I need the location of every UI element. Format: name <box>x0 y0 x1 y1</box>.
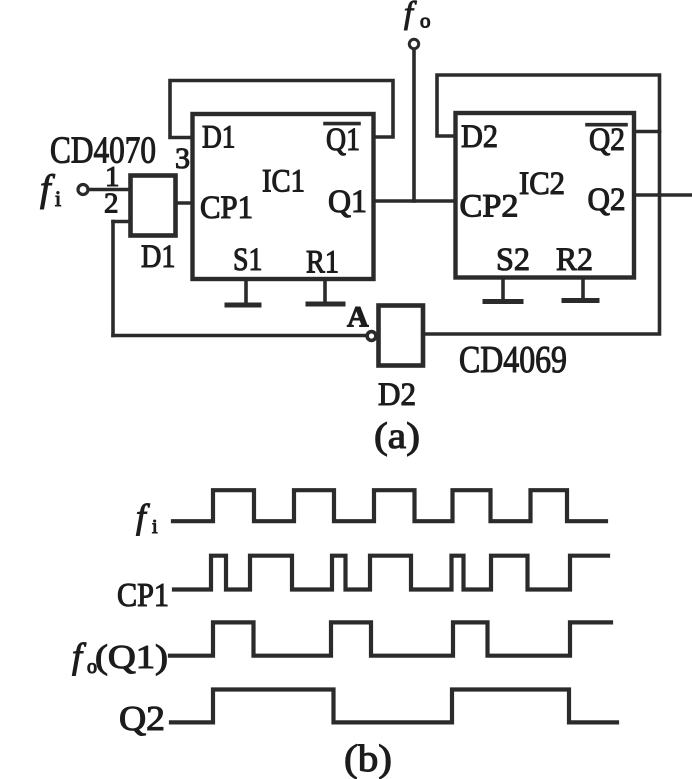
svg-text:i: i <box>55 186 61 211</box>
svg-text:Q1: Q1 <box>328 184 367 220</box>
ground R1 <box>308 279 343 304</box>
input terminal fi <box>78 185 88 195</box>
svg-text:D2: D2 <box>461 119 498 155</box>
svg-text:D1: D1 <box>202 120 236 156</box>
svg-text:A: A <box>347 301 369 334</box>
XOR gate D1 box (CD4070) <box>131 176 176 236</box>
waveform CP1 <box>174 556 608 590</box>
svg-text:CP1: CP1 <box>200 190 253 226</box>
svg-text:IC2: IC2 <box>519 166 565 202</box>
ground S1 <box>227 279 259 305</box>
svg-text:CD4070: CD4070 <box>50 130 156 172</box>
wire Q1 output to CP2 <box>376 199 456 203</box>
svg-text:Q2: Q2 <box>588 182 626 218</box>
svg-text:D2: D2 <box>378 377 416 413</box>
wire Q2 output to right edge <box>634 193 692 197</box>
svg-text:S1: S1 <box>233 242 262 278</box>
wire D1 pin2 stub <box>113 220 128 224</box>
svg-text:Q1: Q1 <box>326 122 360 158</box>
IC2 box <box>456 113 635 278</box>
waveform fo(Q1) <box>170 622 611 655</box>
overline of Q2bar <box>587 123 626 127</box>
svg-text:2: 2 <box>104 188 119 220</box>
svg-text:i: i <box>152 516 158 538</box>
svg-text:(a): (a) <box>374 416 420 457</box>
svg-text:D1: D1 <box>141 239 176 275</box>
svg-text:(Q1): (Q1) <box>95 639 168 676</box>
svg-text:R2: R2 <box>556 242 593 278</box>
ground S2 <box>485 278 521 302</box>
svg-text:S2: S2 <box>496 242 530 278</box>
svg-text:Q2: Q2 <box>589 122 625 158</box>
ground R2 <box>564 278 597 301</box>
wire bottom node A to D2 input <box>113 334 367 338</box>
wire fo vertical <box>412 50 416 202</box>
wire D2 output to right vertical <box>423 132 660 335</box>
svg-text:CD4069: CD4069 <box>459 339 567 381</box>
feedback loop Q1bar to D1 input <box>170 81 393 138</box>
overline of Q1bar <box>325 122 359 126</box>
svg-text:o: o <box>420 9 431 33</box>
svg-text:CP2: CP2 <box>460 189 519 225</box>
svg-text:(b): (b) <box>344 738 392 779</box>
feedback loop Q2bar to D2 via right vertical <box>437 75 660 136</box>
svg-text:IC1: IC1 <box>262 164 305 200</box>
fo terminal <box>409 39 418 48</box>
node A bubble at D2 input <box>367 332 376 341</box>
svg-text:R1: R1 <box>306 245 339 281</box>
wire fi terminal to D1 pin1 <box>90 188 129 192</box>
wire left vertical pin2 to node A <box>111 222 115 336</box>
waveform fi <box>173 490 606 521</box>
svg-text:Q2: Q2 <box>119 699 165 738</box>
IC1 box <box>193 114 374 279</box>
svg-text:CP1: CP1 <box>117 577 169 614</box>
waveform Q2 <box>171 690 617 723</box>
svg-text:3: 3 <box>175 142 190 175</box>
inverter D2 box (CD4069) <box>379 306 424 366</box>
wire D1 pin3 output to CP1 <box>178 201 193 205</box>
